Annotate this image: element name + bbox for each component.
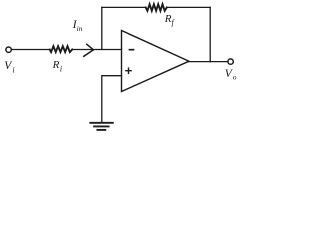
svg-text:Iin: Iin [72, 19, 83, 33]
svg-text:Vo: Vo [225, 68, 237, 82]
wire [189, 61, 228, 63]
svg-text:Ri: Ri [52, 59, 62, 73]
op-amp U1 [122, 31, 190, 92]
resistor Rf [146, 4, 167, 11]
output terminal Vo [228, 59, 233, 64]
wire [102, 76, 122, 122]
svg-text:Vi: Vi [4, 60, 14, 74]
current arrow Iin [84, 44, 94, 56]
resistor Ri [50, 46, 72, 52]
wire [209, 7, 211, 61]
wire [102, 6, 146, 8]
input terminal Vi [6, 47, 11, 52]
wire [167, 6, 210, 8]
wire [12, 49, 50, 51]
ground [90, 123, 113, 130]
wire [72, 49, 121, 51]
svg-text:Rf: Rf [164, 13, 176, 27]
node inverting input wire [101, 7, 103, 49]
